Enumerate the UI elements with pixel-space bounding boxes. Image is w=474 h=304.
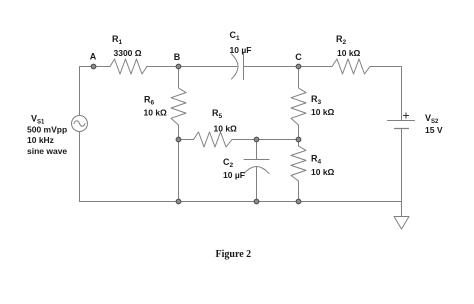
node B dot bbox=[176, 64, 181, 69]
capacitor C2 straight plate bbox=[244, 159, 269, 161]
svg-text:10 kΩ: 10 kΩ bbox=[144, 108, 168, 118]
svg-text:15 V: 15 V bbox=[425, 125, 443, 135]
wire mid-left node down to rail bbox=[178, 140, 180, 202]
wire C2 bottom plate to rail bbox=[256, 167, 258, 202]
battery V_S2 long plate bbox=[388, 120, 415, 122]
resistor R2 bbox=[332, 59, 370, 74]
resistor R3 bbox=[291, 88, 306, 125]
node C dot bbox=[296, 64, 301, 69]
wire source bottom to rail bbox=[79, 132, 81, 202]
source V_S1 circle bbox=[72, 116, 88, 132]
wire bottom rail bbox=[80, 201, 402, 203]
svg-text:B: B bbox=[174, 52, 181, 62]
svg-text:500 mVpp: 500 mVpp bbox=[27, 125, 67, 135]
svg-text:10 kΩ: 10 kΩ bbox=[311, 167, 335, 177]
wire top-left from source to R1 bbox=[80, 67, 111, 116]
svg-text:A: A bbox=[90, 52, 97, 62]
svg-text:Figure 2: Figure 2 bbox=[216, 249, 252, 260]
svg-text:R1: R1 bbox=[112, 34, 123, 46]
rail dot right bbox=[296, 199, 301, 204]
resistor R4 bbox=[291, 146, 306, 181]
wire C1 to R2 through node C bbox=[244, 66, 333, 68]
svg-text:R6: R6 bbox=[144, 95, 155, 107]
rail dot left bbox=[176, 199, 181, 204]
wire battery bottom to ground bbox=[401, 129, 403, 217]
svg-text:10 kΩ: 10 kΩ bbox=[337, 48, 361, 58]
rail dot middle bbox=[254, 199, 259, 204]
svg-text:10 kΩ: 10 kΩ bbox=[311, 107, 335, 117]
svg-text:C2: C2 bbox=[223, 157, 234, 169]
wire R5 to R3/R4 junction bbox=[232, 139, 299, 141]
svg-text:10 µF: 10 µF bbox=[223, 170, 245, 180]
wire R4 bottom to rail bbox=[298, 181, 300, 202]
wire C2 node down to top plate bbox=[256, 140, 258, 160]
resistor R1 bbox=[110, 59, 147, 74]
svg-text:C: C bbox=[295, 52, 302, 62]
wire R6 bottom to mid node bbox=[178, 125, 180, 140]
wire mid node to R5 bbox=[179, 139, 194, 141]
svg-text:10 kHz: 10 kHz bbox=[27, 135, 54, 145]
svg-text:10 kΩ: 10 kΩ bbox=[214, 124, 238, 134]
capacitor C1 curved plate bbox=[232, 54, 239, 79]
capacitor C2 curved plate bbox=[244, 167, 269, 174]
junction R3/R4 dot bbox=[296, 137, 301, 142]
svg-text:R5: R5 bbox=[212, 108, 223, 120]
node A dot bbox=[91, 64, 96, 69]
resistor R5 bbox=[194, 132, 233, 147]
svg-text:R3: R3 bbox=[311, 94, 322, 106]
wire R3 bottom to junction bbox=[298, 125, 300, 140]
ground symbol triangle bbox=[394, 217, 409, 230]
capacitor C1 straight plate bbox=[243, 54, 245, 80]
wire junction to R4 top bbox=[298, 140, 300, 147]
wire node C down to R3 bbox=[298, 67, 300, 89]
wire node B down to R6 bbox=[178, 67, 180, 89]
battery plus sign bbox=[403, 113, 409, 119]
svg-text:10 µF: 10 µF bbox=[230, 45, 252, 55]
svg-text:R2: R2 bbox=[336, 34, 347, 46]
wire R2 to battery top bbox=[370, 67, 402, 121]
svg-text:R4: R4 bbox=[311, 154, 322, 166]
battery V_S2 short plate bbox=[395, 128, 409, 130]
svg-text:VS2: VS2 bbox=[425, 113, 439, 125]
wire R1 to C1 through node B bbox=[147, 66, 237, 68]
source V_S1 sine wave bbox=[74, 121, 85, 127]
svg-text:3300 Ω: 3300 Ω bbox=[114, 48, 142, 58]
svg-text:sine wave: sine wave bbox=[27, 146, 67, 156]
junction R6/R5 dot bbox=[176, 137, 181, 142]
junction R5/C2 dot bbox=[254, 137, 259, 142]
resistor R6 bbox=[171, 88, 186, 125]
svg-text:C1: C1 bbox=[230, 30, 241, 42]
